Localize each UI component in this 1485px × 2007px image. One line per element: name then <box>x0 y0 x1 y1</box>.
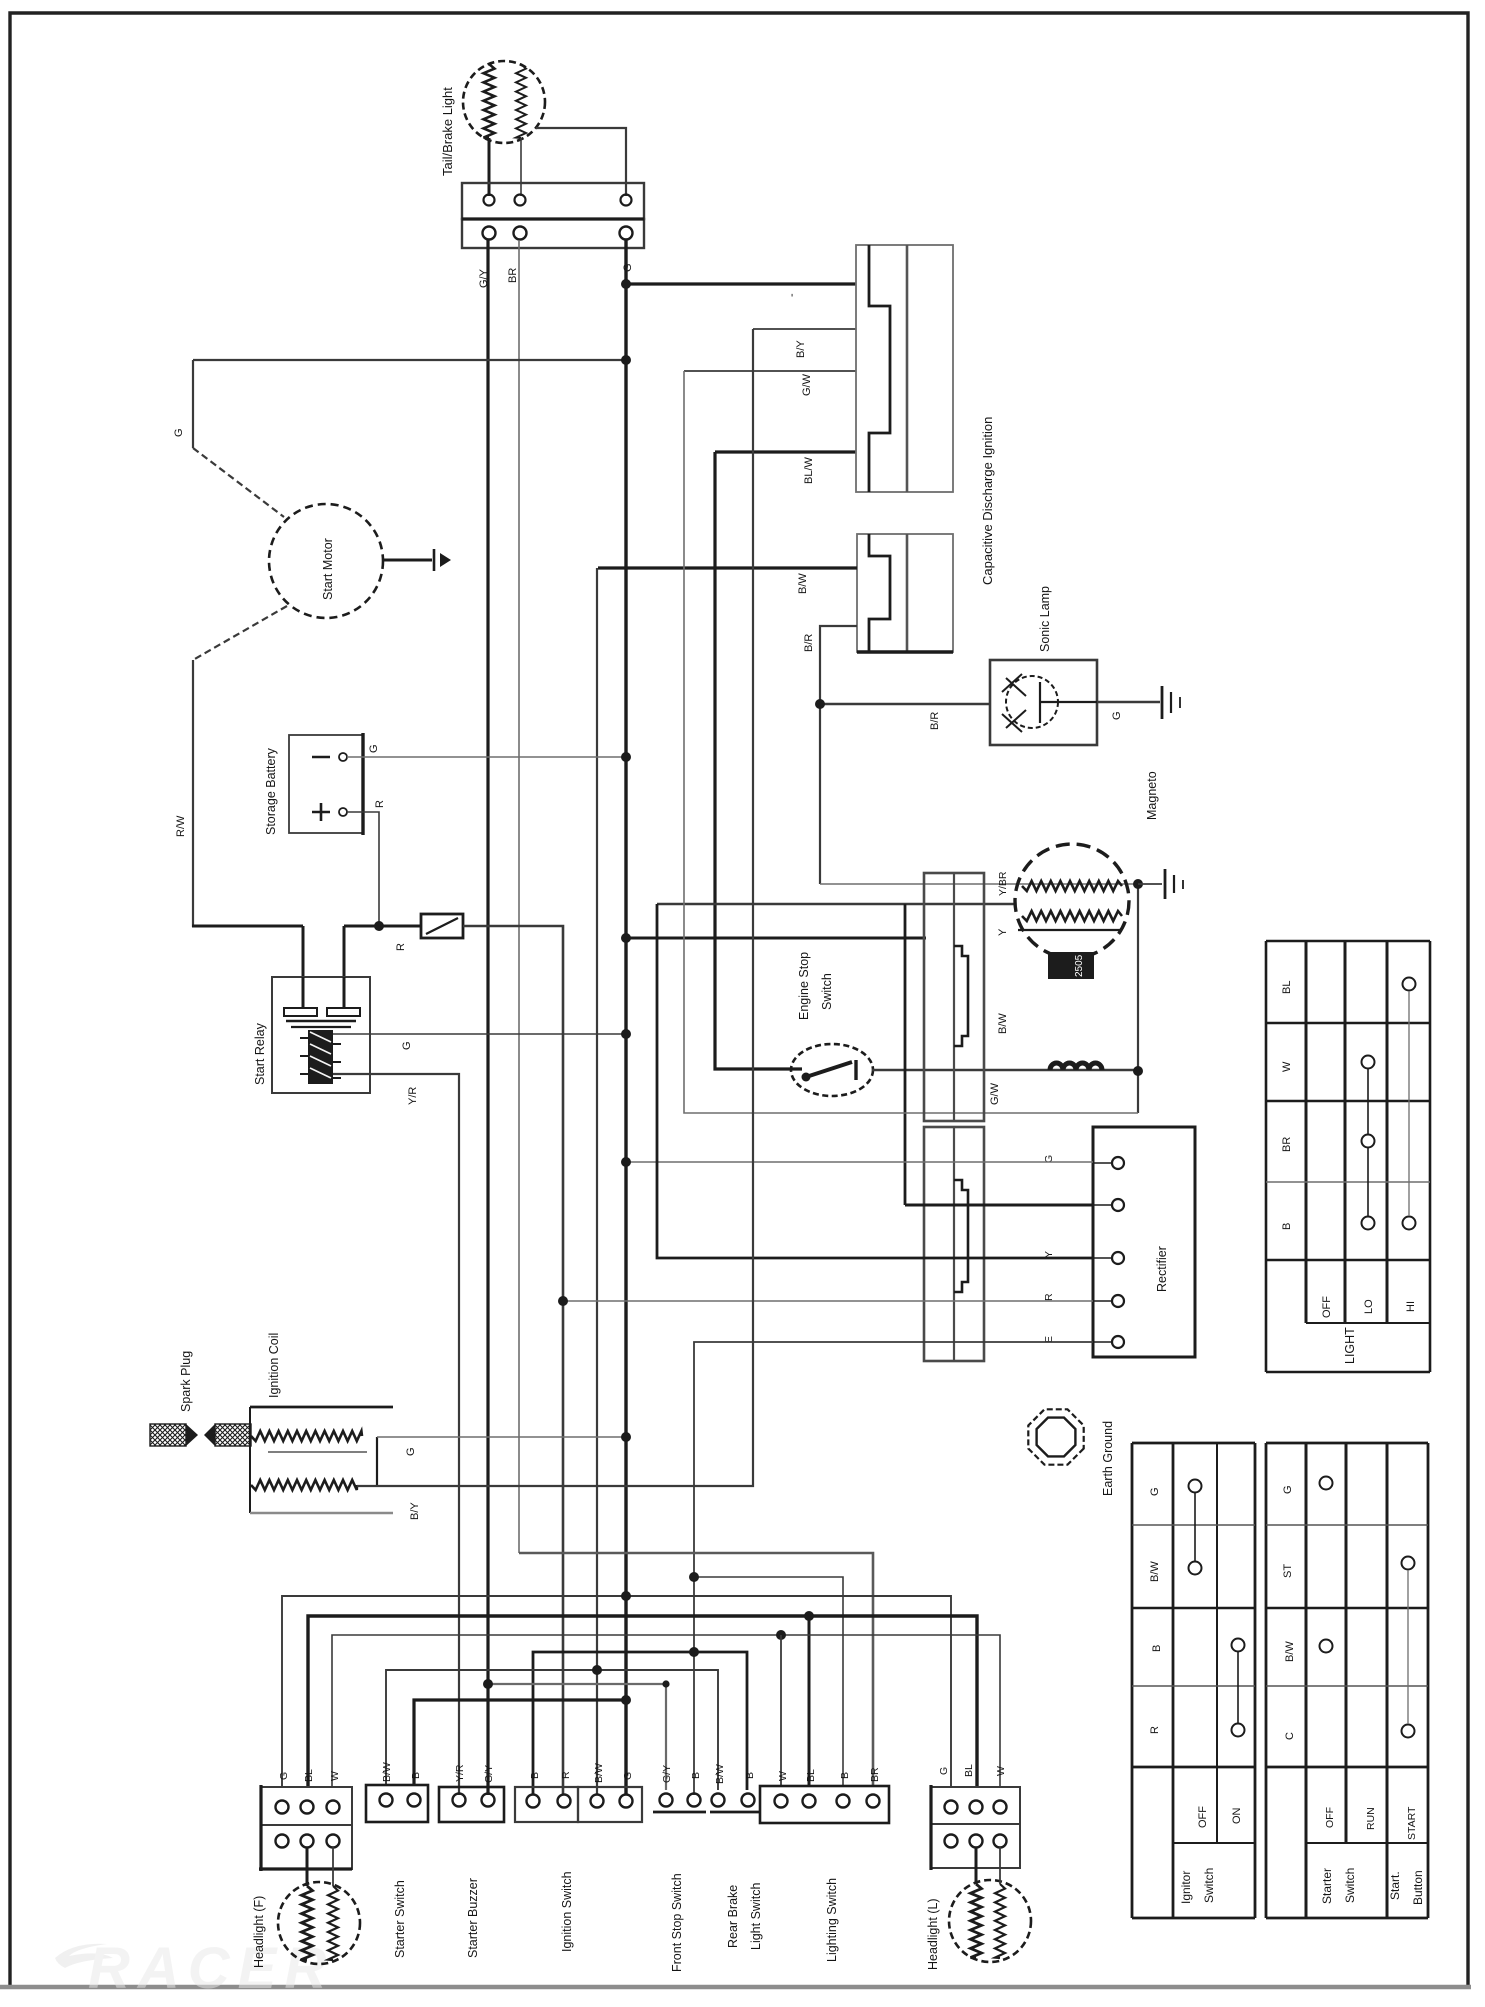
wire B/R to sonic lamp <box>820 703 990 705</box>
svg-text:Switch: Switch <box>1202 1868 1216 1903</box>
svg-text:B/W: B/W <box>714 1764 726 1784</box>
svg-text:Engine Stop: Engine Stop <box>797 952 811 1020</box>
starter buzzer connector <box>439 1787 504 1822</box>
wire BL headlight distribution y=1616 <box>308 1616 977 1787</box>
svg-text:G: G <box>278 1772 290 1780</box>
svg-text:BL: BL <box>963 1764 975 1777</box>
svg-text:-: - <box>786 293 798 297</box>
starter table START contacts <box>1402 1557 1415 1738</box>
svg-text:B: B <box>744 1772 756 1779</box>
CDI upper connector <box>856 245 953 492</box>
ignition coil <box>250 1407 393 1513</box>
svg-text:Magneto: Magneto <box>1145 771 1159 820</box>
wire B/W to CDI lower pin1 <box>598 566 857 569</box>
light table LO contacts <box>1362 1056 1375 1230</box>
svg-text:Start.: Start. <box>1388 1871 1402 1900</box>
wire R battery to fuse <box>344 925 421 928</box>
engine stop switch <box>791 1044 873 1096</box>
svg-text:B: B <box>529 1772 541 1779</box>
svg-text:Ignition Coil: Ignition Coil <box>267 1333 281 1398</box>
starter switch table <box>1266 1443 1428 1918</box>
svg-text:RACER: RACER <box>88 1936 334 2001</box>
wire B distribution y=1652 <box>533 1652 747 1795</box>
svg-text:OFF: OFF <box>1324 1807 1336 1828</box>
svg-text:Spark Plug: Spark Plug <box>179 1351 193 1412</box>
svg-text:B/W: B/W <box>1149 1561 1161 1582</box>
wire Y lighting coil to magneto bus <box>684 371 1138 1113</box>
ignition switch connector <box>515 1787 642 1822</box>
svg-text:R/W: R/W <box>175 815 187 837</box>
svg-text:G: G <box>1282 1485 1294 1494</box>
svg-text:Y/R: Y/R <box>454 1764 466 1782</box>
svg-text:B: B <box>1151 1645 1163 1652</box>
svg-text:Starter: Starter <box>1320 1868 1334 1904</box>
wire start motor ground <box>383 559 432 562</box>
svg-text:Tail/Brake Light: Tail/Brake Light <box>440 87 455 176</box>
wire B distribution y=1577 <box>694 1577 843 1787</box>
svg-text:R: R <box>1043 1293 1055 1301</box>
svg-text:Front Stop Switch: Front Stop Switch <box>670 1873 684 1972</box>
start motor <box>269 504 383 618</box>
wire G start relay <box>333 1033 626 1035</box>
wire G bus x=626 <box>624 240 627 1795</box>
earth ground symbol <box>1028 1409 1083 1464</box>
wire B starter distribution y=1700 <box>414 1700 626 1785</box>
svg-text:BR: BR <box>1281 1137 1293 1152</box>
lighting switch connector <box>760 1786 889 1823</box>
wire G headlight distribution y=1596 <box>282 1596 951 1787</box>
wire B/R from CDI lower pin2 <box>820 626 857 884</box>
svg-text:W: W <box>995 1766 1007 1776</box>
svg-text:ST: ST <box>1282 1564 1294 1578</box>
svg-text:Starter Buzzer: Starter Buzzer <box>466 1878 480 1958</box>
starter switch connector <box>366 1785 428 1822</box>
wire B/Y to CDI pin2 <box>753 328 856 330</box>
inductor coil <box>1050 1063 1102 1070</box>
svg-text:G: G <box>405 1447 417 1456</box>
svg-text:Rear Brake: Rear Brake <box>726 1885 740 1948</box>
wire W lighting switch drop <box>780 1635 782 1787</box>
svg-text:B: B <box>839 1772 851 1779</box>
svg-text:W: W <box>329 1771 341 1781</box>
svg-text:Earth Ground: Earth Ground <box>1101 1421 1115 1496</box>
svg-text:Ignitor: Ignitor <box>1179 1871 1193 1904</box>
fuse <box>421 914 463 938</box>
svg-text:B/R: B/R <box>929 712 941 730</box>
svg-text:Ignition Switch: Ignition Switch <box>560 1871 574 1952</box>
svg-text:G: G <box>1111 711 1123 720</box>
wire G start motor branch <box>193 360 284 517</box>
wire R/W start motor to relay <box>192 606 303 1008</box>
wire E to rectifier pin5 <box>694 1342 1093 1795</box>
svg-text:Light Switch: Light Switch <box>749 1883 763 1950</box>
label 2505 plate <box>1048 952 1094 979</box>
svg-text:R: R <box>1149 1726 1161 1734</box>
svg-text:OFF: OFF <box>1197 1806 1209 1828</box>
svg-text:HI: HI <box>1405 1301 1417 1312</box>
svg-text:W: W <box>1281 1061 1293 1072</box>
svg-text:G/Y: G/Y <box>661 1765 673 1783</box>
svg-text:Starter Switch: Starter Switch <box>393 1880 407 1958</box>
svg-text:BL: BL <box>303 1769 315 1782</box>
headlight (F) connector <box>259 1785 352 1871</box>
wire tail bulb to connector <box>489 128 626 196</box>
wire B/Y ignition coil to CDI <box>357 329 753 1486</box>
svg-text:2505: 2505 <box>1074 954 1085 977</box>
svg-text:Start Relay: Start Relay <box>253 1022 267 1085</box>
svg-text:G/Y: G/Y <box>483 1765 495 1783</box>
svg-text:G: G <box>173 428 185 437</box>
magneto <box>1015 844 1129 958</box>
svg-text:Sonic Lamp: Sonic Lamp <box>1038 586 1052 652</box>
svg-text:B/W: B/W <box>593 1763 605 1783</box>
headlight (L) connector <box>931 1785 1020 1870</box>
wire G/W to CDI pin3 <box>684 370 856 372</box>
wire Y/R start relay <box>333 1074 459 1795</box>
svg-text:Capacitive Discharge Ignition: Capacitive Discharge Ignition <box>980 417 995 585</box>
front stop switch connector <box>653 1794 760 1813</box>
svg-text:B: B <box>1281 1223 1293 1230</box>
sonic lamp <box>990 660 1097 745</box>
svg-text:Start Motor: Start Motor <box>321 538 335 600</box>
svg-text:Y/BR: Y/BR <box>997 871 1009 896</box>
wire BL/W to CDI pin4 <box>715 450 856 453</box>
wire horizontal G y=360 <box>193 359 626 361</box>
svg-text:G: G <box>938 1767 950 1775</box>
svg-text:G: G <box>368 744 380 753</box>
start relay <box>272 977 370 1093</box>
ignitor ON contacts <box>1232 1639 1245 1737</box>
harness connector upper <box>924 873 984 1121</box>
wire B/W harness y=938 <box>626 937 926 940</box>
svg-text:C: C <box>1284 1732 1296 1740</box>
svg-text:ON: ON <box>1231 1807 1243 1824</box>
svg-text:Y: Y <box>997 928 1009 936</box>
watermark <box>55 1936 334 2001</box>
svg-text:B: B <box>410 1772 422 1779</box>
storage battery <box>289 733 363 835</box>
svg-text:LIGHT: LIGHT <box>1343 1327 1357 1364</box>
ground symbol magneto <box>1138 869 1183 899</box>
rectifier <box>1093 1127 1195 1357</box>
headlight (F) bulb <box>278 1847 360 1964</box>
svg-text:Headlight (F): Headlight (F) <box>252 1896 266 1968</box>
wire R fuse to bus <box>463 926 563 1795</box>
wire G to CDI pin1 <box>626 282 856 285</box>
wire Y/BR magneto <box>657 903 1016 905</box>
wire B/W distribution y=1670 <box>386 1670 718 1790</box>
tail light connector block <box>462 183 644 248</box>
wire BL lighting switch drop <box>808 1616 811 1787</box>
svg-text:G/W: G/W <box>801 373 813 396</box>
svg-text:BR: BR <box>507 268 519 283</box>
wire R battery positive <box>347 812 379 926</box>
wire x=905 to rectifier <box>904 904 907 1205</box>
svg-text:START: START <box>1406 1806 1418 1840</box>
svg-text:B/Y: B/Y <box>795 340 807 358</box>
svg-text:B/W: B/W <box>997 1013 1009 1034</box>
starter table contacts col2 <box>1320 1477 1333 1653</box>
ground symbol right of sonic lamp <box>1162 686 1180 719</box>
svg-text:BL: BL <box>805 1769 817 1782</box>
svg-text:LO: LO <box>1363 1299 1375 1314</box>
headlight (L) bulb <box>949 1847 1031 1962</box>
svg-text:RUN: RUN <box>1365 1807 1377 1830</box>
svg-text:B/Y: B/Y <box>409 1502 421 1520</box>
wire Y to rectifier pin3 <box>657 904 1093 1258</box>
svg-text:Rectifier: Rectifier <box>1155 1246 1169 1292</box>
svg-text:G: G <box>622 1772 634 1780</box>
wire B/W bus x=597 <box>596 568 598 1795</box>
light table HI contacts <box>1403 978 1416 1230</box>
svg-text:B/R: B/R <box>803 634 815 652</box>
harness connector lower <box>924 1127 984 1361</box>
svg-text:B/W: B/W <box>797 573 809 594</box>
svg-text:Storage Battery: Storage Battery <box>264 747 278 835</box>
wire BR distribution y=1553 <box>519 1553 873 1787</box>
wire BL/W bus to engine stop switch <box>715 452 802 1069</box>
light switch table <box>1266 941 1430 1372</box>
svg-text:B/W: B/W <box>1284 1641 1296 1662</box>
svg-text:Button: Button <box>1411 1870 1425 1905</box>
ignitor OFF contacts <box>1189 1480 1202 1575</box>
svg-text:Y/R: Y/R <box>407 1087 419 1105</box>
svg-text:Headlight (L): Headlight (L) <box>926 1898 940 1970</box>
wire G battery negative <box>347 756 626 758</box>
wire W headlight distribution y=1635 <box>332 1635 1000 1787</box>
svg-text:R: R <box>395 943 407 951</box>
svg-text:G: G <box>401 1041 413 1050</box>
svg-text:G: G <box>622 263 634 272</box>
svg-text:Switch: Switch <box>820 973 834 1010</box>
wire R to rectifier pin4 <box>563 1300 1093 1302</box>
wire G/Y bus x=488 <box>486 240 489 1795</box>
svg-text:BL: BL <box>1281 981 1293 994</box>
wire BR bus x=519 <box>518 240 520 1553</box>
ground symbol start motor <box>434 549 451 571</box>
svg-text:G/W: G/W <box>989 1082 1001 1105</box>
svg-text:W: W <box>777 1771 789 1781</box>
svg-text:OFF: OFF <box>1321 1296 1333 1318</box>
wire to rectifier pin2 <box>905 1204 1093 1207</box>
tail/brake light bulb <box>463 61 545 143</box>
svg-text:G: G <box>1149 1487 1161 1496</box>
ignitor switch table <box>1132 1443 1255 1918</box>
svg-text:BL/W: BL/W <box>803 456 815 484</box>
wire sonic lamp to ground <box>1097 701 1160 703</box>
svg-text:BR: BR <box>869 1767 881 1782</box>
svg-text:Switch: Switch <box>1343 1868 1357 1903</box>
svg-text:Lighting Switch: Lighting Switch <box>825 1878 839 1962</box>
svg-text:R: R <box>560 1771 572 1779</box>
wire source coil to magneto <box>820 883 1138 885</box>
wire magneto right bus <box>1137 884 1139 1113</box>
wire G ignition coil <box>377 1436 626 1438</box>
wire engine stop to inductor <box>872 1069 1138 1072</box>
wire to relay terminal <box>343 926 346 1008</box>
CDI lower connector <box>857 534 953 652</box>
wire G/Y distribution y=1684 <box>488 1684 666 1790</box>
svg-text:B: B <box>690 1772 702 1779</box>
spark plug <box>150 1424 251 1446</box>
wire G to rectifier pin1 <box>626 1161 1093 1163</box>
svg-text:R: R <box>374 800 386 808</box>
svg-text:B/W: B/W <box>381 1762 393 1782</box>
